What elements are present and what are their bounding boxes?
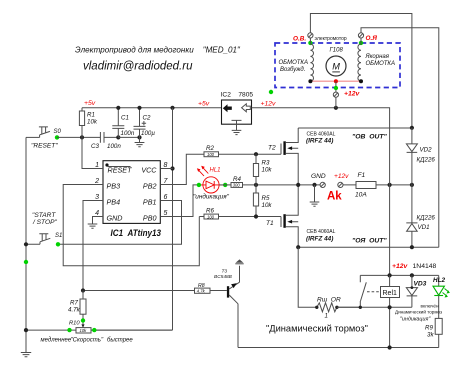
svg-text:+12v: +12v: [261, 101, 277, 108]
wire: +5v rail drop to VCC pin8 and down to R10: [91, 108, 173, 330]
resistor R2: [204, 145, 281, 157]
svg-text:BC548B: BC548B: [214, 274, 233, 280]
svg-text:M: M: [332, 62, 340, 72]
svg-text:(IRFZ 44): (IRFZ 44): [306, 138, 333, 145]
svg-text:PB2: PB2: [143, 182, 157, 191]
node: C2 top: [137, 106, 141, 110]
node: R7 top junction: [81, 288, 85, 292]
svg-text:4.7k: 4.7k: [197, 288, 206, 293]
svg-text:2: 2: [94, 178, 99, 185]
capacitor C2 (electrolytic): [134, 108, 156, 138]
svg-text:100: 100: [207, 214, 215, 219]
svg-text:GND: GND: [311, 173, 326, 180]
terminal О.В: [308, 33, 313, 38]
wire: pin2 PB3 to R6 row: [63, 185, 199, 266]
node: VCC drop junction on +5v rail: [170, 106, 174, 110]
svg-text:C3: C3: [91, 143, 99, 150]
ground (main rail): [310, 185, 320, 206]
node: R3 top junction: [254, 152, 258, 156]
svg-text:HL1: HL1: [210, 167, 221, 173]
svg-text:1: 1: [95, 162, 99, 169]
svg-text:R3: R3: [262, 160, 270, 167]
svg-text:1N4148: 1N4148: [413, 263, 437, 270]
svg-text:R8: R8: [198, 283, 205, 289]
wire: motor common down to +12v rail: [335, 81, 337, 108]
svg-text:IC2: IC2: [221, 92, 232, 99]
wire: pin5 PB0 to LED: [160, 185, 199, 217]
svg-text:"ОВ OUT": "ОВ OUT": [352, 134, 388, 141]
svg-text:T1: T1: [266, 220, 274, 227]
svg-text:R5: R5: [262, 195, 270, 202]
svg-text:+12v: +12v: [344, 91, 361, 98]
terminal GND: [320, 182, 325, 187]
svg-text:"индикация": "индикация": [400, 317, 431, 323]
svg-text:"индикация": "индикация": [193, 193, 230, 201]
wire: T2 drain row to VD2 column: [298, 127, 412, 129]
resistor Rsh OR (zigzag): [315, 297, 360, 320]
svg-text:Динамический тормоз: Динамический тормоз: [395, 309, 442, 315]
svg-text:+12v: +12v: [392, 263, 409, 270]
node: green marker on GND column: [24, 260, 28, 264]
svg-text:10k: 10k: [80, 328, 88, 333]
svg-text:100n: 100n: [107, 143, 121, 150]
ground (pin4): [88, 224, 98, 228]
wire: winding common (red): [310, 80, 361, 82]
resistor R8: [83, 283, 227, 293]
svg-text:КД226: КД226: [417, 157, 436, 164]
wire: bottom rail: [238, 347, 439, 349]
svg-text:КД226: КД226: [417, 215, 436, 222]
svg-text:+12v: +12v: [334, 173, 349, 180]
node: F1 output / +12v drop junction: [388, 183, 392, 187]
svg-text:ОБМОТКА: ОБМОТКА: [279, 60, 308, 66]
svg-text:5: 5: [164, 210, 168, 217]
wire: pin3 PB4 down to R7: [83, 201, 103, 291]
svg-text:4: 4: [95, 210, 99, 217]
wire: +5v rail: [82, 107, 222, 109]
potentiometer R10: [24, 321, 173, 334]
capacitor C3: [91, 132, 121, 150]
svg-text:"ОЯ OUT": "ОЯ OUT": [352, 238, 387, 245]
svg-text:R6: R6: [206, 207, 214, 214]
svg-text:VCC: VCC: [141, 166, 157, 175]
wire: OB top link to VD2 column: [310, 14, 412, 128]
node: VCC pin8 junction: [170, 166, 174, 170]
svg-text:быстрее: быстрее: [107, 338, 133, 344]
svg-text:10k: 10k: [87, 119, 98, 126]
node: C2 bottom junction: [137, 135, 141, 139]
svg-text:VD1: VD1: [418, 224, 430, 231]
motor M: [326, 48, 346, 77]
svg-text:10k: 10k: [262, 167, 273, 174]
svg-text:3: 3: [95, 194, 99, 201]
node: RESET junction: [80, 135, 84, 139]
svg-text:PB3: PB3: [107, 182, 121, 191]
svg-text:100n: 100n: [121, 130, 135, 137]
inductor: field winding: [310, 38, 313, 81]
svg-text:3k: 3k: [427, 332, 434, 339]
wire: pin7 PB2 to R2: [160, 154, 204, 184]
IC1 ATtiny13: [94, 161, 168, 238]
wire: pin8 VCC: [160, 168, 172, 170]
pushbutton S0: [39, 127, 50, 137]
svg-text:C1: C1: [121, 115, 129, 122]
svg-text:Ak: Ak: [327, 191, 342, 203]
node: C1 top: [116, 106, 120, 110]
node: R5 bottom junction: [254, 214, 258, 218]
wire: LED to R4: [219, 184, 231, 186]
svg-text:VD2: VD2: [420, 147, 433, 154]
resistor R3: [253, 154, 272, 185]
transistor T3 BC548B: [214, 259, 244, 347]
svg-text:Г108: Г108: [330, 48, 344, 54]
node: green marker near box corner: [269, 90, 273, 94]
diode VD3 1N4148: [406, 263, 436, 307]
svg-text:1: 1: [325, 313, 328, 320]
svg-text:R1: R1: [87, 112, 95, 119]
svg-text:10A: 10A: [355, 192, 367, 199]
svg-text:"Скорость": "Скорость": [71, 338, 104, 344]
svg-text:8: 8: [164, 162, 168, 169]
svg-text:vladimir@radioded.ru: vladimir@radioded.ru: [83, 61, 193, 73]
node: T2 source / T1 drain junction: [296, 183, 300, 187]
electromotor dashed box: [275, 43, 400, 88]
svg-text:PB4: PB4: [107, 198, 121, 207]
svg-text:R4: R4: [233, 176, 241, 183]
svg-text:T3: T3: [222, 269, 228, 275]
svg-text:О.Я: О.Я: [366, 35, 378, 42]
relay coil Rel1: [381, 275, 400, 347]
svg-text:100: 100: [207, 152, 215, 157]
relay contact: [360, 275, 379, 307]
capacitor C1: [112, 108, 135, 138]
svg-text:IC1 ATtiny13: IC1 ATtiny13: [111, 228, 162, 238]
svg-text:6: 6: [164, 194, 168, 201]
svg-text:R2: R2: [206, 145, 214, 152]
svg-text:S1: S1: [55, 233, 62, 239]
resistor R9: [425, 318, 442, 347]
svg-text:7805: 7805: [238, 92, 253, 99]
svg-text:R7: R7: [70, 300, 78, 307]
ground (under C2): [135, 137, 145, 146]
wire: pin1 RESET: [82, 137, 103, 168]
node: C1 bottom junction: [116, 135, 120, 139]
svg-text:100µ: 100µ: [141, 130, 155, 137]
resistor R4: [231, 176, 322, 188]
title text: [75, 46, 241, 73]
svg-text:Якорная: Якорная: [365, 54, 390, 60]
svg-text:4.7k: 4.7k: [68, 307, 81, 314]
node: R3/R5 junction: [254, 183, 258, 187]
diode VD2 KD226: [406, 128, 435, 185]
node: OB junction at VD2 top: [410, 126, 414, 130]
wire: pin4 GND: [93, 217, 104, 224]
svg-text:300: 300: [233, 183, 241, 188]
wire: S0 reset row: [26, 136, 40, 138]
node: VD junction on rail: [410, 183, 414, 187]
svg-text:О.В.: О.В.: [293, 36, 306, 43]
svg-text:ОБМОТКА: ОБМОТКА: [366, 61, 395, 67]
wire: OYA top link to right column: [361, 28, 439, 247]
svg-text:T2: T2: [268, 145, 276, 152]
node: GND terminal junction: [312, 183, 316, 187]
svg-text:VD3: VD3: [414, 281, 427, 288]
resistor R5: [253, 185, 272, 217]
node: S0 green marker: [55, 135, 59, 139]
svg-text:PB0: PB0: [143, 214, 157, 223]
svg-text:Rш OR: Rш OR: [317, 297, 341, 304]
wire: brake bottom row: [337, 306, 412, 308]
svg-text:HL2: HL2: [433, 277, 446, 284]
node: motor feed junction: [334, 106, 338, 110]
svg-text:GND: GND: [107, 214, 123, 223]
LED HL1: [193, 166, 230, 201]
svg-text:включён: включён: [421, 304, 439, 309]
svg-text:RESET: RESET: [108, 166, 133, 175]
svg-text:медленнее: медленнее: [41, 338, 72, 344]
svg-text:(IRFZ 44): (IRFZ 44): [306, 236, 333, 243]
svg-text:R9: R9: [425, 325, 433, 332]
svg-text:/ STOP": / STOP": [32, 219, 57, 226]
svg-text:Электропривод для медогонки: Электропривод для медогонки "MED_01": [75, 46, 241, 55]
resistor R7: [68, 291, 86, 328]
wire: S0 to RESET node: [57, 136, 100, 138]
wire: pin6 PB1 to S1: [58, 201, 182, 245]
svg-text:СЕВ 4060AL: СЕВ 4060AL: [307, 229, 336, 235]
MOSFET T1 IRFZ44: [266, 185, 336, 247]
wire: OYA OUT row: [298, 246, 439, 248]
resistor R6: [199, 207, 281, 219]
svg-text:"RESET": "RESET": [31, 143, 58, 150]
svg-text:R10: R10: [69, 321, 80, 327]
fuse F1: [343, 172, 412, 199]
terminal О.Я: [358, 33, 363, 38]
wire: +12v rail from IC2 to drop: [252, 108, 390, 276]
pushbutton S1: [26, 234, 50, 245]
svg-text:C2: C2: [143, 115, 151, 122]
wire: relay +12v row: [360, 274, 438, 276]
ground (bottom left): [21, 353, 31, 357]
svg-text:F1: F1: [358, 172, 366, 179]
svg-text:+5v: +5v: [84, 100, 96, 107]
svg-text:10k: 10k: [262, 202, 273, 209]
IC2 7805 regulator: [221, 92, 254, 135]
svg-text:PB1: PB1: [143, 198, 157, 207]
svg-text:электромотор: электромотор: [315, 36, 347, 42]
svg-text:+5v: +5v: [198, 101, 210, 108]
inductor: armature winding: [358, 38, 361, 81]
wire: left GND column: [25, 137, 27, 352]
LED HL2 (green): [433, 275, 450, 318]
terminal +12v (motor): [333, 92, 338, 97]
svg-text:"Динамический тормоз": "Динамический тормоз": [266, 324, 368, 334]
svg-text:Возбужд.: Возбужд.: [280, 67, 305, 73]
wire: [118, 136, 139, 138]
MOSFET T2 IRFZ44: [268, 128, 336, 185]
wire: brake branch down: [298, 247, 317, 307]
svg-text:S0: S0: [54, 129, 62, 135]
svg-text:"START: "START: [32, 212, 56, 219]
diode VD1 KD226: [406, 185, 435, 247]
resistor R1: [79, 108, 97, 138]
svg-text:Rel1: Rel1: [383, 290, 398, 297]
terminal +12v (Ak): [338, 182, 343, 187]
